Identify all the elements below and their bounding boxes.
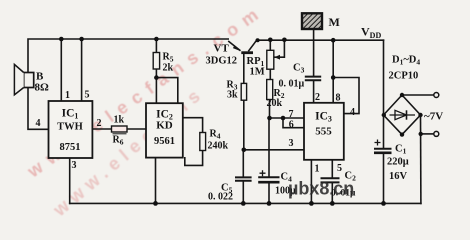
node ground/C2: [330, 201, 335, 206]
node rail/pin5: [79, 37, 84, 42]
ground bottom rail: [70, 202, 421, 204]
svg-text:4: 4: [36, 118, 41, 129]
node rail/pin8: [331, 38, 336, 43]
wire C1 bottom to ground: [383, 154, 385, 204]
capacitor C3 0.01u: [279, 63, 322, 90]
capacitor C4 100u electrolytic: [258, 170, 296, 196]
svg-text:555: 555: [315, 126, 332, 138]
node pin8/pin4: [331, 75, 336, 80]
node R3/pin3: [242, 148, 247, 153]
IC2 KD9561 box: [146, 103, 183, 157]
svg-text:1: 1: [65, 90, 70, 101]
wire R2 bottom to 555 pin 7: [270, 100, 305, 119]
node R2/pin7: [267, 116, 272, 121]
svg-text:220μ: 220μ: [387, 157, 409, 168]
capacitor C2 0.01u: [321, 171, 357, 199]
wire RP1 wiper to rail: [275, 40, 285, 57]
wire RP1 top lead: [269, 40, 271, 51]
svg-text:5: 5: [85, 90, 90, 101]
wire IC1 pin 3 to ground rail: [69, 158, 71, 203]
node bridge top vertex: [400, 93, 404, 97]
potentiometer RP1 1M: [247, 50, 281, 77]
node ground/C5: [241, 201, 246, 206]
wire VT base lead through R3: [243, 54, 245, 151]
resistor R5 2k: [153, 52, 174, 74]
wire 555 pin 4 loop: [333, 78, 359, 114]
wire speaker bottom to IC1 pin 4: [28, 88, 49, 130]
wire jog to 555 pin 6: [283, 118, 304, 128]
svg-text:2k: 2k: [163, 63, 174, 74]
AC terminal circle top: [434, 93, 439, 98]
svg-text:240k: 240k: [208, 141, 229, 152]
AC terminal circle bottom: [434, 131, 439, 136]
node ground/pin1: [309, 201, 314, 206]
wire RP1 to R2: [269, 69, 271, 79]
wire 555 pin 1 to ground: [310, 160, 312, 204]
wire R2 node down to C4: [268, 118, 270, 177]
svg-text:1k: 1k: [114, 115, 125, 126]
IC1 TWH8751 box: [49, 101, 93, 158]
bridge rectifier D1~D4 2CP10: [384, 55, 421, 135]
wire IC1 pin2 - R6 - IC2: [92, 128, 146, 130]
node bridge terminal branch: [419, 132, 423, 136]
capacitor C1 220u 16V: [374, 140, 409, 183]
svg-text:VT: VT: [214, 43, 230, 55]
svg-text:8Ω: 8Ω: [35, 82, 50, 94]
svg-text:4: 4: [350, 107, 355, 118]
svg-text:8: 8: [336, 93, 341, 104]
motor M: [302, 13, 340, 29]
node pin6 branch: [281, 116, 286, 121]
watermark red diagonal www.elecfans.com: [23, 0, 268, 182]
svg-text:6: 6: [289, 119, 294, 130]
wire IC1 pin 1: [60, 39, 62, 101]
resistor R2 20k: [267, 80, 285, 109]
wire VDD column to C1: [383, 40, 385, 148]
wire bridge right vertex down to terminal 2 and ground corner: [420, 115, 422, 203]
svg-text:3k: 3k: [227, 90, 238, 101]
svg-text:KD: KD: [156, 120, 173, 132]
wire C5 column: [242, 150, 244, 177]
svg-text:5: 5: [337, 163, 342, 174]
resistor R4 240k: [200, 129, 229, 152]
wire R5 bottom jog to IC2 top right pin: [156, 78, 177, 104]
svg-text:20k: 20k: [267, 98, 283, 109]
wire IC1 pin 5: [81, 39, 83, 101]
svg-text:16V: 16V: [389, 171, 408, 182]
svg-text:3DG12: 3DG12: [206, 56, 238, 67]
svg-text:~7V: ~7V: [424, 111, 443, 123]
wire 555 pin 5 to C2: [331, 160, 333, 178]
svg-text:TWH: TWH: [57, 122, 83, 133]
svg-text:D1~D4: D1~D4: [392, 55, 420, 67]
wire collector rail to VDD corner: [257, 39, 384, 41]
node rail/wiper: [282, 38, 287, 43]
svg-text:µbx8.cn: µbx8.cn: [288, 179, 354, 199]
node rail/RP1: [268, 38, 273, 43]
wire motor to C3 crossing VDD rail: [313, 29, 315, 76]
wire IC2 right pin to R4 top: [183, 118, 203, 133]
node bridge bottom vertex: [400, 132, 404, 136]
node bridge right vertex: [418, 113, 422, 117]
wire 555 pin 8: [332, 40, 334, 103]
node bridge left vertex: [382, 113, 386, 117]
node R5 bottom: [154, 75, 159, 80]
wire bridge top vertex to AC terminal 1: [402, 94, 434, 96]
IC3 555 box: [304, 103, 344, 160]
wire C3 to 555 pin 2: [313, 81, 315, 103]
wire R5 column: [155, 39, 157, 103]
wire R4 bottom loop to IC2 corner: [185, 151, 203, 166]
svg-text:3: 3: [289, 138, 294, 149]
svg-text:2CP10: 2CP10: [389, 71, 419, 82]
svg-text:M: M: [329, 15, 340, 29]
wire 555 pin 3 to node: [244, 149, 304, 151]
svg-text:1M: 1M: [250, 67, 265, 78]
node ground/C4: [267, 201, 272, 206]
svg-text:2: 2: [315, 92, 320, 103]
svg-text:2: 2: [97, 118, 102, 129]
svg-text:8751: 8751: [60, 142, 81, 153]
capacitor C5 0.022: [208, 177, 252, 202]
resistor R3 3k: [227, 80, 247, 101]
svg-text:3: 3: [72, 160, 77, 171]
node ground/IC2: [153, 201, 158, 206]
wire IC2 bottom pin to ground: [155, 158, 157, 204]
svg-text:1: 1: [315, 164, 320, 175]
transistor VT 3DG12: [206, 40, 257, 66]
node rail/R5: [154, 37, 159, 42]
node ground/C1: [381, 201, 386, 206]
speaker B 8ohm: [14, 64, 49, 94]
svg-text:9561: 9561: [154, 136, 175, 147]
svg-text:0. 022: 0. 022: [208, 192, 233, 203]
wire top-left rail from speaker top to transistor emitter: [28, 39, 228, 73]
resistor R6 1k: [112, 115, 128, 147]
svg-text:0. 01μ: 0. 01μ: [279, 79, 305, 90]
node collector joint: [256, 38, 260, 42]
node rail/pin1: [59, 37, 64, 42]
